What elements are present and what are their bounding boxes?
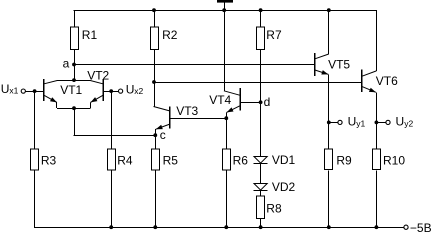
transistor VT2 (90, 79, 118, 108)
power supply bar (217, 0, 233, 3)
junction collector segment centre (72, 78, 76, 82)
svg-text:R7: R7 (266, 28, 282, 42)
label Uy2 (396, 114, 414, 128)
wire R7 top lead (260, 10, 262, 27)
transistor VT5 (315, 10, 329, 150)
diode VD1 (254, 157, 267, 164)
wire VD1 to VD2 (260, 164, 262, 183)
svg-text:VT1: VT1 (60, 83, 82, 97)
resistor R4 (107, 149, 115, 170)
junction R5 bottom (153, 225, 157, 229)
wire Uy2 stub (376, 122, 386, 124)
resistor R6 (222, 149, 230, 170)
wire top supply rail (74, 10, 377, 12)
wire R9 bottom lead (328, 170, 330, 227)
resistor R9 (324, 149, 332, 170)
junction R6 bottom (224, 225, 228, 229)
wire R6 top lead (226, 118, 228, 150)
resistor R7 (256, 27, 264, 49)
wire R4 bottom lead (111, 171, 113, 228)
junction VT5 collector on rail (327, 8, 331, 12)
wire R6 bottom lead (226, 171, 228, 228)
svg-text:VD2: VD2 (272, 180, 296, 194)
transistor VT4 (224, 10, 261, 118)
wire R2 bottom lead / VT3 collector lead (154, 50, 156, 107)
resistor R2 (150, 27, 158, 49)
wire R8 bottom lead (260, 219, 262, 227)
node d junction (259, 100, 263, 104)
svg-text:VD1: VD1 (272, 153, 296, 167)
transistor VT1 (26, 79, 58, 108)
label Ux1 (1, 82, 19, 96)
svg-text:x1: x1 (9, 86, 18, 96)
svg-text:R8: R8 (266, 201, 282, 215)
svg-text:R5: R5 (163, 154, 179, 168)
wire R3 top lead (34, 91, 36, 150)
svg-text:R3: R3 (41, 154, 57, 168)
junction power stub / top rail (222, 8, 226, 12)
junction R4 bottom (109, 225, 113, 229)
svg-text:y1: y1 (356, 118, 365, 128)
wire R1 top lead (74, 10, 76, 27)
svg-text:−5В: −5В (410, 221, 432, 233)
svg-text:R4: R4 (117, 154, 133, 168)
transistor VT6 (362, 10, 377, 150)
wire R1 bottom lead (74, 50, 76, 65)
svg-text:VT3: VT3 (176, 104, 198, 118)
resistor R10 (372, 149, 380, 170)
wire R5 bottom lead (155, 171, 157, 228)
label Uy1 (348, 114, 366, 128)
junction R8 bottom (259, 225, 263, 229)
svg-text:R10: R10 (383, 154, 405, 168)
wire R4 top lead (111, 91, 113, 150)
terminal Uy1 circle (338, 120, 342, 124)
terminal Ux1 circle (21, 89, 25, 93)
svg-text:VT5: VT5 (328, 58, 350, 72)
wire VD2 to R8 (260, 191, 262, 197)
svg-text:U: U (1, 82, 10, 96)
wire emitter segment VT1-VT2 (57, 108, 91, 110)
svg-text:U: U (396, 114, 405, 128)
wire Uy1 stub (329, 122, 338, 124)
svg-text:U: U (348, 114, 357, 128)
wire node d to VD1 (260, 102, 262, 156)
junction R2 top on rail (152, 8, 156, 12)
wire power stub (224, 3, 226, 11)
junction R4 tap on VT2 base (109, 89, 113, 93)
wire R10 bottom lead (376, 170, 378, 227)
transistor VT3 (154, 106, 227, 135)
wire node a to VT5 base (74, 64, 315, 66)
svg-text:d: d (264, 95, 271, 109)
svg-text:y2: y2 (404, 118, 413, 128)
svg-text:R6: R6 (233, 154, 249, 168)
wire R7 bottom lead to node d (260, 50, 262, 103)
resistor R1 (70, 27, 78, 49)
svg-text:R2: R2 (162, 28, 178, 42)
junction Uy1 tap (327, 121, 331, 125)
junction R9 bottom (327, 225, 331, 229)
wire R2 top lead (154, 10, 156, 27)
terminal -5V circle (404, 225, 408, 229)
wire R5 top lead (155, 135, 157, 150)
junction emitter segment centre (72, 106, 76, 110)
junction R7 top on rail (259, 8, 263, 12)
svg-text:c: c (160, 128, 166, 142)
diode VD2 (254, 184, 267, 191)
wire node a down to collectors (74, 65, 76, 81)
svg-text:R1: R1 (82, 28, 98, 42)
label Ux2 (126, 82, 144, 96)
resistor R8 (256, 196, 264, 218)
junction R3 tap on VT1 base (33, 89, 37, 93)
wire collector segment VT1-VT2 (57, 80, 91, 82)
terminal Uy2 circle (386, 120, 390, 124)
resistor R5 (151, 149, 159, 170)
svg-text:VT6: VT6 (376, 74, 398, 88)
wire emitters down to node c (74, 108, 156, 135)
node c junction (153, 133, 157, 137)
junction R2 to VT6-base wire (152, 80, 156, 84)
svg-text:VT4: VT4 (209, 93, 231, 107)
svg-text:a: a (63, 57, 70, 71)
junction R10 bottom (375, 225, 379, 229)
wire junction to VT6 base (154, 82, 362, 84)
svg-text:x2: x2 (134, 86, 143, 96)
wire R3 bottom lead (34, 171, 36, 228)
svg-text:U: U (126, 82, 135, 96)
svg-text:VT2: VT2 (87, 69, 109, 83)
junction VT3 base / VT4 emitter / R6 (224, 116, 228, 120)
resistor R3 (30, 149, 38, 170)
terminal Ux2 circle (119, 89, 123, 93)
junction Uy2 tap (375, 121, 379, 125)
wire bottom supply rail (34, 227, 404, 229)
svg-text:R9: R9 (336, 154, 352, 168)
node a junction (72, 63, 76, 67)
